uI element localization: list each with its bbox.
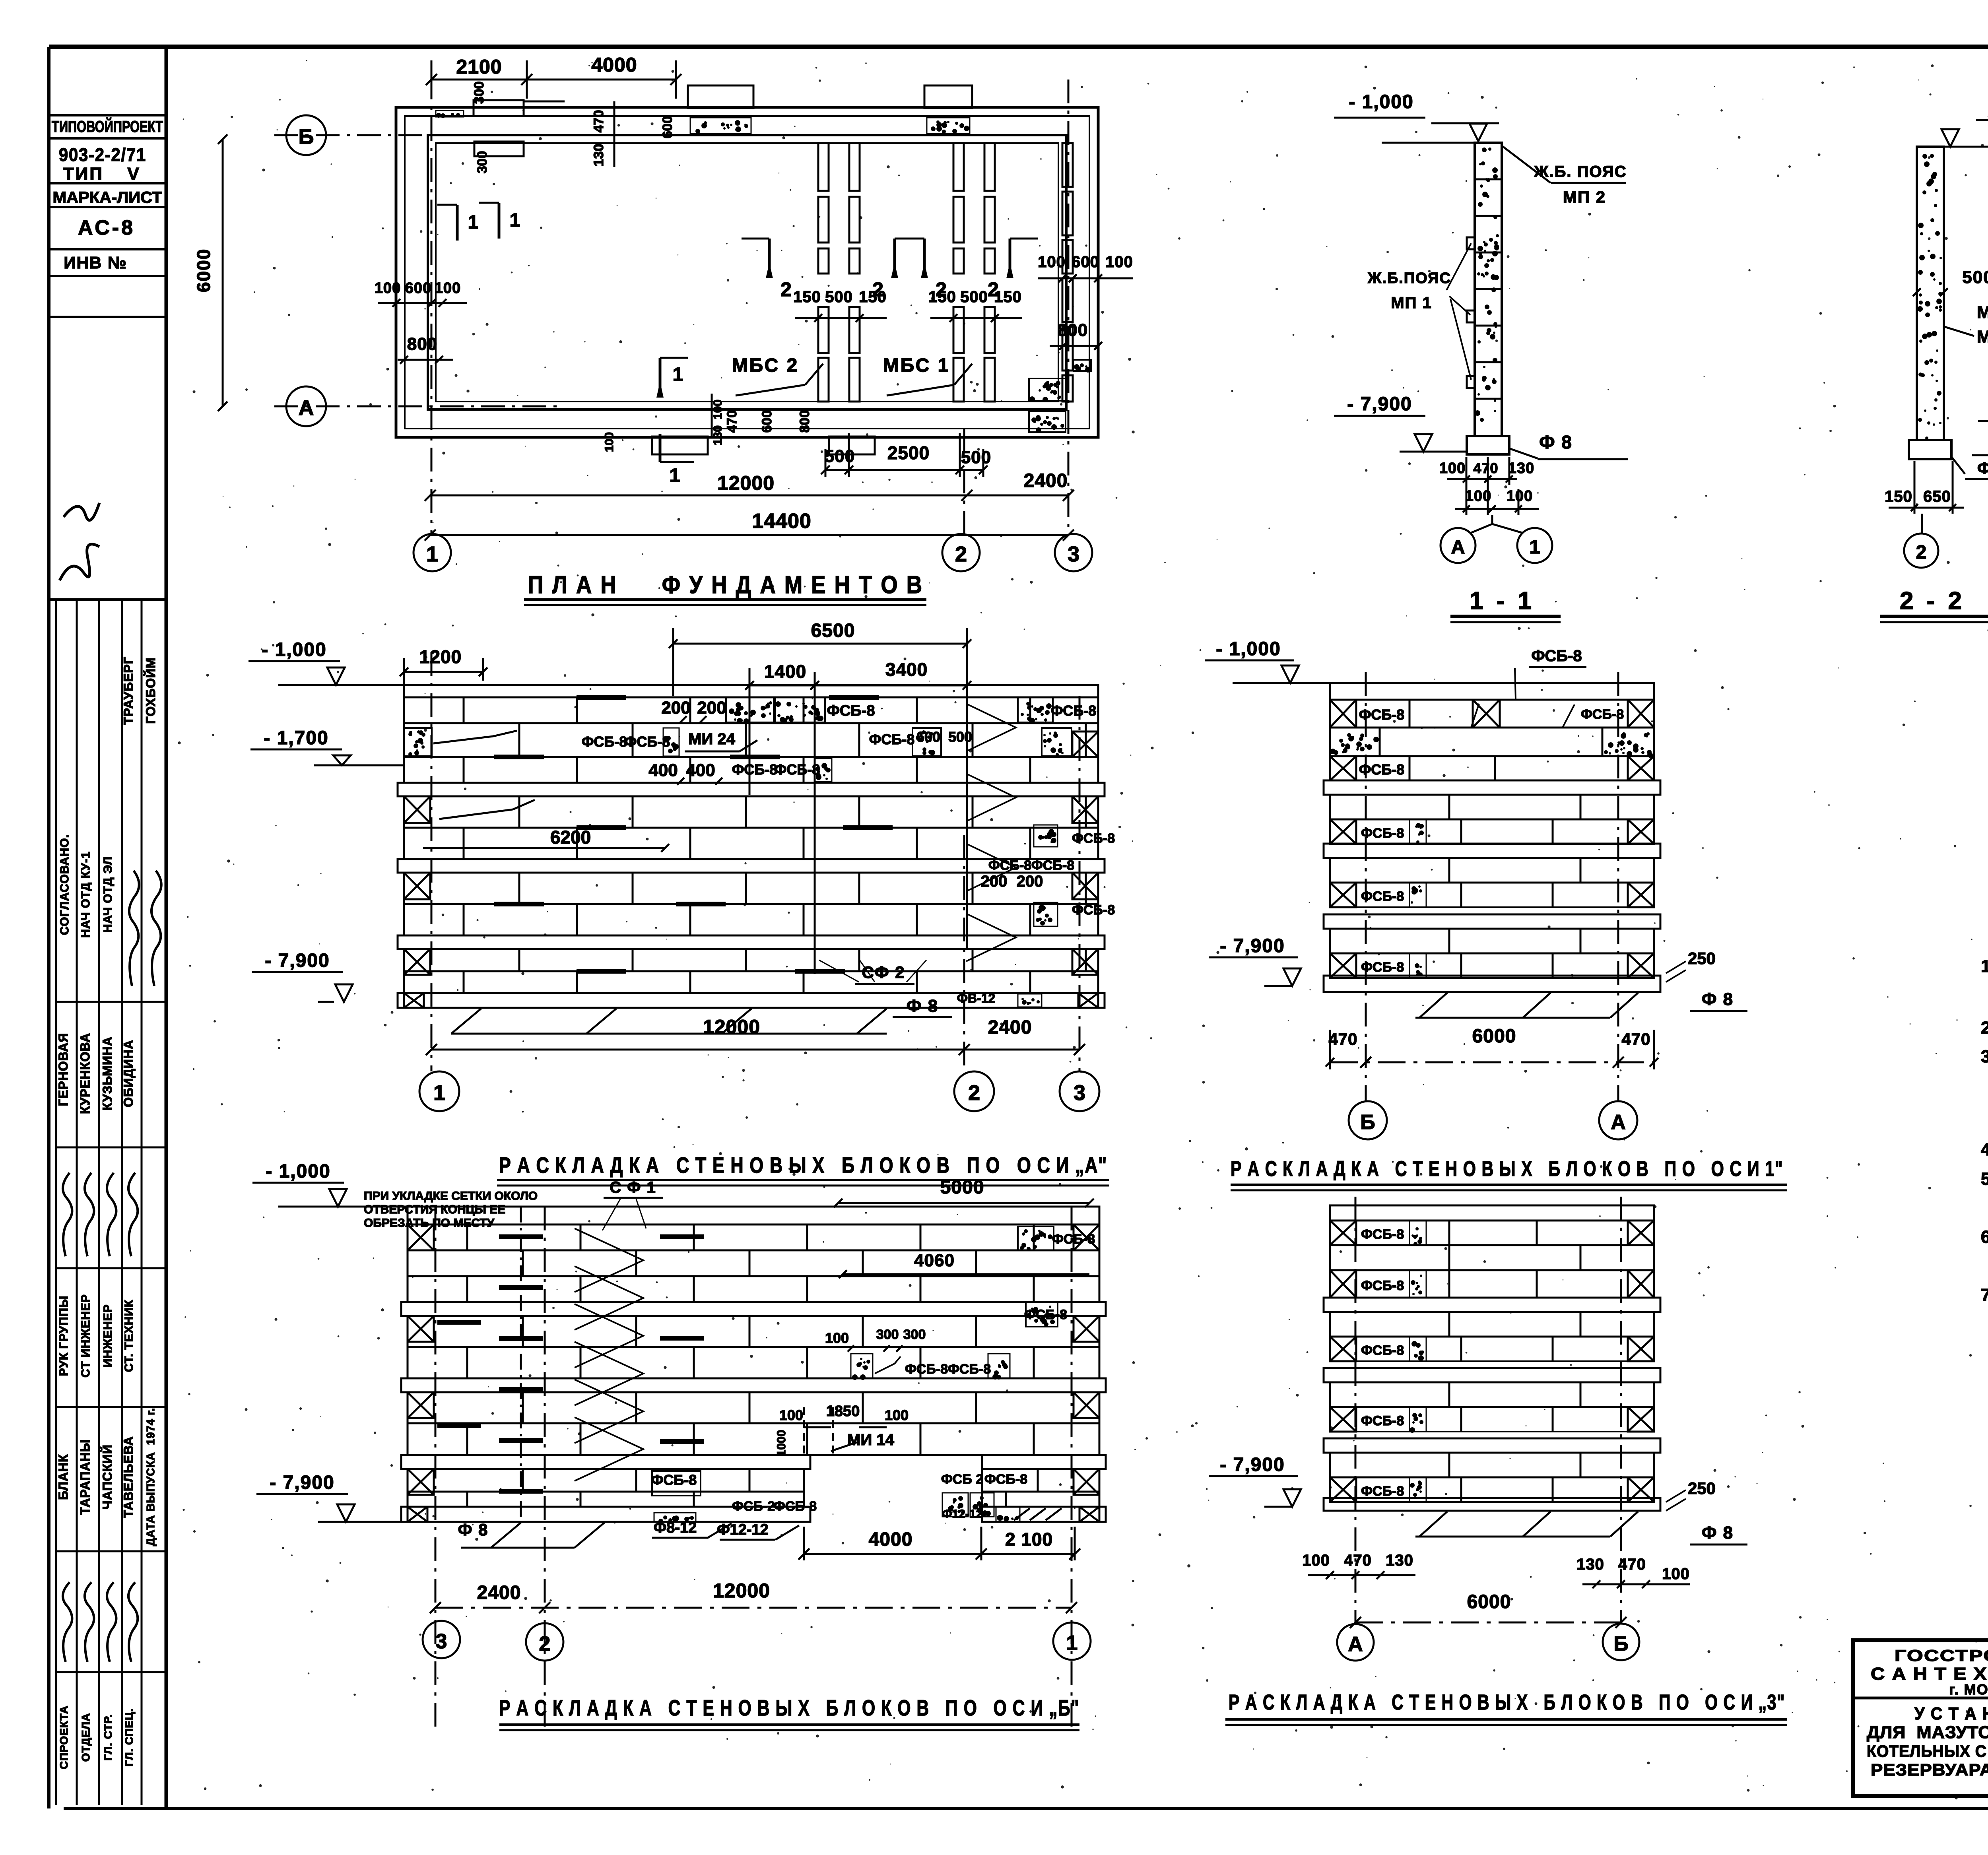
elevation axis A: corner curve row2 xyxy=(439,800,535,819)
elevation axis A: X-blocks left column xyxy=(404,796,430,823)
svg-text:ФСБ-8: ФСБ-8 xyxy=(984,1472,1027,1487)
svg-text:- 7,900: - 7,900 xyxy=(270,1472,334,1493)
svg-text:- 7,900: - 7,900 xyxy=(265,950,330,971)
elevation axis Б: bottom band (interrupted) xyxy=(401,1507,810,1522)
elevation axis 3: Ф8 leaders xyxy=(1419,1512,1447,1537)
elevation axis A: axis circle 1 xyxy=(419,1071,459,1111)
elevation axis A: belt 3 xyxy=(398,935,1105,949)
svg-text:ГОССТРОЙ СССР: ГОССТРОЙ СССР xyxy=(1895,1646,1988,1665)
elevation axis A: speckled blocks and labels row2 xyxy=(404,728,432,756)
elevation axis 3: top band xyxy=(1330,1205,1654,1220)
svg-text:ОБРЕЗАТЬ ПО МЕСТУ: ОБРЕЗАТЬ ПО МЕСТУ xyxy=(364,1217,495,1230)
svg-text:Ф 8: Ф 8 xyxy=(458,1520,489,1539)
elevation axis 3 band section C: belt xyxy=(1324,1438,1660,1453)
svg-text:150: 150 xyxy=(1885,488,1912,505)
svg-text:ФСБ-8: ФСБ-8 xyxy=(1361,1484,1404,1499)
svg-text:ФСБ-8: ФСБ-8 xyxy=(1361,1278,1404,1293)
elevation axis Б: footing leaders and labels xyxy=(491,1523,521,1548)
elevation axis Б: chevron joints column xyxy=(575,1228,643,1292)
plan: partition walls P2 xyxy=(953,143,964,191)
svg-text:4.: 4. xyxy=(1981,1140,1988,1159)
svg-text:6000: 6000 xyxy=(193,248,214,292)
elevation axis 3 band section B: belt xyxy=(1324,1368,1660,1382)
elevation axis 1: top thin band xyxy=(1330,683,1654,700)
elevation axis Б: pier bottom hatch xyxy=(1014,1508,1062,1520)
svg-text:ФСБ-2: ФСБ-2 xyxy=(732,1499,775,1514)
elevation axis 1 band section A: plain course xyxy=(1330,795,1654,819)
svg-text:2400: 2400 xyxy=(988,1017,1032,1038)
elevation axis A: rows section 2 xyxy=(404,796,1098,828)
svg-text:Ф 8: Ф 8 xyxy=(1702,990,1734,1009)
svg-text:ФСБ-8: ФСБ-8 xyxy=(582,733,627,750)
elevation axis 1: bottom band xyxy=(1324,976,1660,992)
svg-text:3: 3 xyxy=(1074,1081,1085,1105)
svg-text:ГЛ. СТР.: ГЛ. СТР. xyxy=(102,1714,114,1760)
svg-text:600: 600 xyxy=(759,410,775,433)
svg-text:ФСБ-8: ФСБ-8 xyxy=(869,731,915,747)
plan: axis circle Б xyxy=(286,115,326,155)
elevation axis Б: section 3 courses xyxy=(408,1392,1099,1423)
svg-text:470: 470 xyxy=(591,110,606,133)
svg-text:МИ 14: МИ 14 xyxy=(847,1431,894,1449)
svg-text:200: 200 xyxy=(1017,873,1043,890)
svg-text:150: 150 xyxy=(994,288,1022,306)
elevation axis A: axis circle 2 xyxy=(954,1071,994,1111)
svg-text:РУК ГРУППЫ: РУК ГРУППЫ xyxy=(57,1296,70,1376)
elevation axis 3: X course 2 xyxy=(1330,1270,1654,1298)
elevation axis Б: axis circle 1 xyxy=(1053,1622,1091,1660)
svg-text:Ф8-12: Ф8-12 xyxy=(1977,459,1988,477)
section 2-2: monolith column xyxy=(1917,147,1944,440)
svg-text:ФВ-12: ФВ-12 xyxy=(957,991,996,1005)
elevation axis 1 band section B: X course xyxy=(1330,883,1654,907)
svg-text:5000: 5000 xyxy=(940,1177,984,1198)
svg-text:130: 130 xyxy=(1386,1552,1413,1569)
elevation axis Б: axis circle 2 xyxy=(526,1623,563,1661)
svg-text:1200: 1200 xyxy=(419,646,462,667)
svg-text:ИНВ №: ИНВ № xyxy=(64,253,127,272)
svg-text:Ф 8: Ф 8 xyxy=(907,996,938,1016)
elevation axis Б: belt 1 xyxy=(401,1302,1106,1316)
svg-text:100: 100 xyxy=(779,1407,803,1423)
svg-text:Б: Б xyxy=(1613,1632,1628,1655)
svg-text:2 100: 2 100 xyxy=(1005,1529,1053,1550)
elevation axis A: speckled blocks and labels row1 xyxy=(726,697,774,722)
elevation axis 3 band section A: plain course xyxy=(1330,1312,1654,1337)
svg-text:С Ф 1: С Ф 1 xyxy=(610,1179,656,1196)
svg-text:500: 500 xyxy=(960,288,988,306)
svg-text:Ф12-12: Ф12-12 xyxy=(942,1508,982,1521)
svg-text:200: 200 xyxy=(697,698,726,718)
svg-text:600: 600 xyxy=(405,280,431,297)
section 1-1: block column xyxy=(1475,143,1502,436)
svg-text:470: 470 xyxy=(1344,1552,1372,1569)
svg-text:ИНЖЕНЕР: ИНЖЕНЕР xyxy=(101,1304,115,1367)
svg-text:- 1,000: - 1,000 xyxy=(1216,638,1281,660)
svg-text:2: 2 xyxy=(1916,542,1927,563)
svg-text:ФСБ-8: ФСБ-8 xyxy=(1072,831,1115,846)
elevation axis 3 band section B: plain course xyxy=(1330,1382,1654,1407)
svg-text:ФСБ-8: ФСБ-8 xyxy=(1024,1307,1067,1322)
svg-text:Р А С К Л А Д К А С Т Е Н О: Р А С К Л А Д К А С Т Е Н О В Ы Х Б Л О … xyxy=(499,1695,1079,1720)
plan: section mark 1 top xyxy=(456,205,459,241)
elevation axis Б: X-blocks left column xyxy=(408,1224,434,1250)
svg-text:Р А С К Л А Д К А С Т Е Н О: Р А С К Л А Д К А С Т Е Н О В Ы Х Б Л О … xyxy=(1229,1690,1785,1714)
svg-text:470: 470 xyxy=(1618,1556,1646,1573)
svg-text:300: 300 xyxy=(903,1327,926,1342)
svg-text:100: 100 xyxy=(1662,1565,1690,1583)
svg-text:ФСБ-8: ФСБ-8 xyxy=(1361,1413,1404,1428)
svg-text:А: А xyxy=(1348,1633,1363,1656)
elevation axis 1: course row 1 with X blocks xyxy=(1330,700,1654,728)
plan: hatched corner patches right xyxy=(1029,378,1066,401)
svg-text:РЕЗЕРВУАРАМИ 2х1000м: РЕЗЕРВУАРАМИ 2х1000м xyxy=(1871,1760,1988,1779)
elevation axis Б: top section courses xyxy=(408,1224,1099,1250)
elevation axis A: axis circle 3 xyxy=(1060,1071,1099,1111)
svg-text:150: 150 xyxy=(793,288,821,306)
svg-text:ТАВЕЛЬЕВА: ТАВЕЛЬЕВА xyxy=(121,1436,136,1518)
svg-text:1: 1 xyxy=(510,210,520,231)
svg-text:- 1,000: - 1,000 xyxy=(262,639,326,660)
svg-text:903-2-2/71: 903-2-2/71 xyxy=(59,144,146,165)
svg-text:3: 3 xyxy=(436,1630,447,1653)
plan: partition walls P1 xyxy=(818,143,829,191)
svg-text:МБС 1: МБС 1 xyxy=(1977,303,1988,322)
section 1-1: left ledge tabs xyxy=(1467,237,1475,249)
elevation axis A: rows section 4 xyxy=(404,949,1098,971)
rotated signatures squiggles 2 xyxy=(63,1582,72,1662)
svg-text:4060: 4060 xyxy=(914,1251,955,1270)
svg-text:14400: 14400 xyxy=(752,510,812,533)
svg-text:2500: 2500 xyxy=(887,442,930,463)
elevation axis 3 band section C: plain course xyxy=(1330,1453,1654,1477)
left stamp column cells xyxy=(49,114,166,116)
elevation axis 3 band section C: X course xyxy=(1330,1477,1654,1502)
title block frame xyxy=(1853,1640,1988,1796)
svg-text:1850: 1850 xyxy=(826,1403,860,1420)
elevation axis 3: plain course xyxy=(1330,1245,1654,1270)
svg-text:100: 100 xyxy=(1105,253,1133,271)
svg-text:2400: 2400 xyxy=(1024,470,1068,491)
elevation axis 1 band section A: X course xyxy=(1330,819,1654,844)
sheet border frame xyxy=(49,45,1988,49)
svg-text:130: 130 xyxy=(1508,460,1534,477)
svg-text:А: А xyxy=(299,396,314,420)
svg-text:500: 500 xyxy=(948,729,972,745)
foundation plan: inner wall faces xyxy=(428,135,1066,409)
svg-text:Р А С К Л А Д К А С Т Е Н О: Р А С К Л А Д К А С Т Е Н О В Ы Х Б Л О … xyxy=(1231,1157,1783,1181)
elevation axis 1 band section B: plain course xyxy=(1330,858,1654,883)
svg-text:300: 300 xyxy=(475,151,490,174)
svg-text:4000: 4000 xyxy=(591,54,637,76)
svg-text:100: 100 xyxy=(1439,460,1466,477)
svg-text:А: А xyxy=(1611,1111,1626,1134)
svg-text:ДЛЯ МАЗУТОСНАБЖЕНИЯ: ДЛЯ МАЗУТОСНАБЖЕНИЯ xyxy=(1867,1723,1988,1742)
svg-text:100: 100 xyxy=(1507,488,1533,504)
rotated signatures squiggles xyxy=(63,1173,72,1256)
svg-text:Б: Б xyxy=(299,125,314,149)
svg-text:600: 600 xyxy=(916,729,940,745)
svg-text:СТ ИНЖЕНЕР: СТ ИНЖЕНЕР xyxy=(79,1294,92,1378)
left column signature scribbles xyxy=(60,544,99,580)
svg-text:- 1,000: - 1,000 xyxy=(1349,91,1413,113)
elevation axis 1 band section C: plain course xyxy=(1330,929,1654,953)
svg-text:100: 100 xyxy=(1302,1552,1330,1569)
svg-text:ОТВЕРСТИЯ КОНЦЫ ЕЕ: ОТВЕРСТИЯ КОНЦЫ ЕЕ xyxy=(364,1203,505,1216)
svg-text:ОТДЕЛА: ОТДЕЛА xyxy=(80,1713,92,1762)
svg-text:1: 1 xyxy=(1066,1632,1078,1655)
svg-text:ФСБ-8: ФСБ-8 xyxy=(1531,647,1582,665)
svg-text:2100: 2100 xyxy=(456,56,502,78)
svg-text:500: 500 xyxy=(825,288,853,306)
svg-text:- 7,900: - 7,900 xyxy=(1347,394,1412,415)
plan: section marks 2 xyxy=(768,239,771,278)
elevation axis A: axis dash lines xyxy=(431,652,433,1071)
section 2-2: footing block xyxy=(1909,440,1951,459)
svg-text:ТИПОВОЙПРОЕКТ: ТИПОВОЙПРОЕКТ xyxy=(52,117,163,136)
elevation axis 3: axis circle А xyxy=(1337,1624,1374,1661)
svg-text:Ф 8: Ф 8 xyxy=(1702,1523,1734,1543)
svg-text:КОТЕЛЬНЫХ С ПОДЗЕМНЫМИ: КОТЕЛЬНЫХ С ПОДЗЕМНЫМИ xyxy=(1867,1742,1988,1760)
svg-text:150: 150 xyxy=(928,288,956,306)
elevation axis 1: axis circle А xyxy=(1599,1101,1637,1139)
svg-text:500: 500 xyxy=(961,448,991,467)
svg-text:ДАТА ВЫПУСКА 1974 г.: ДАТА ВЫПУСКА 1974 г. xyxy=(144,1408,157,1546)
elevation axis 1 band section C: X course xyxy=(1330,953,1654,978)
svg-text:ФСБ-8: ФСБ-8 xyxy=(1361,889,1404,904)
svg-text:1: 1 xyxy=(673,364,683,385)
section 1-1: axis circle А xyxy=(1441,528,1475,563)
svg-text:100: 100 xyxy=(825,1330,849,1346)
elevation axis 3: bottom band xyxy=(1324,1498,1660,1511)
elevation axis 3: axis circle Б xyxy=(1603,1624,1639,1660)
svg-text:НАЧ ОТД КУ-1: НАЧ ОТД КУ-1 xyxy=(79,851,92,937)
svg-text:470: 470 xyxy=(1473,460,1498,476)
svg-text:6.: 6. xyxy=(1981,1227,1988,1247)
svg-text:400: 400 xyxy=(648,761,678,780)
elevation axis 1: Ф8 leader bottom xyxy=(1419,993,1447,1018)
svg-text:300: 300 xyxy=(472,81,487,104)
svg-text:1: 1 xyxy=(670,465,680,486)
svg-text:12000: 12000 xyxy=(713,1579,770,1602)
svg-text:470: 470 xyxy=(1328,1030,1357,1048)
svg-text:5.: 5. xyxy=(1981,1169,1988,1189)
svg-text:1.: 1. xyxy=(1981,957,1988,976)
svg-text:1: 1 xyxy=(433,1081,445,1105)
svg-text:ЧАПСКИЙ: ЧАПСКИЙ xyxy=(100,1444,115,1510)
plan: axis dash-dot lines xyxy=(274,134,429,136)
svg-text:ФСБ-8: ФСБ-8 xyxy=(905,1362,948,1377)
elevation axis 3 band section A: X course xyxy=(1330,1337,1654,1361)
svg-text:КУРЕНКОВА: КУРЕНКОВА xyxy=(78,1033,92,1114)
plan: axis circle А xyxy=(286,386,326,426)
svg-text:130: 130 xyxy=(591,144,606,167)
section 2-2: axis circle 2 xyxy=(1904,534,1938,568)
svg-text:12000: 12000 xyxy=(717,472,775,494)
svg-text:500: 500 xyxy=(1962,268,1988,287)
svg-text:ГОХБОЙМ: ГОХБОЙМ xyxy=(144,657,158,724)
svg-text:ФСБ-8: ФСБ-8 xyxy=(1051,702,1097,719)
elevation axis 1 band section A: belt xyxy=(1324,780,1660,795)
svg-text:- 1,700: - 1,700 xyxy=(264,728,328,749)
svg-text:Ж.Б.ПОЯС: Ж.Б.ПОЯС xyxy=(1367,270,1451,287)
plan: top dimension 2100 xyxy=(431,79,676,81)
elevation axis A: chevron joints column xyxy=(966,704,1016,751)
elevation axis Б: black joint marks xyxy=(499,1234,543,1239)
elevation axis 3: axis dash lines xyxy=(1355,1197,1357,1623)
elevation axis 1: axis dash lines xyxy=(1365,672,1367,1101)
elevation axis A: X-blocks right column xyxy=(1072,732,1098,757)
left column signature table xyxy=(76,600,78,1805)
svg-text:ФСБ-8: ФСБ-8 xyxy=(1072,902,1115,918)
svg-text:1400: 1400 xyxy=(764,661,806,682)
svg-text:12000: 12000 xyxy=(703,1016,760,1038)
svg-text:1000: 1000 xyxy=(775,1430,788,1457)
svg-text:ТАРАПАНЫ: ТАРАПАНЫ xyxy=(78,1439,92,1515)
svg-text:ФСБ-8: ФСБ-8 xyxy=(1361,1343,1404,1358)
svg-text:6000: 6000 xyxy=(1467,1591,1511,1612)
svg-text:7.: 7. xyxy=(1981,1285,1988,1305)
elevation axis 3 band section A: belt xyxy=(1324,1298,1660,1312)
svg-text:250: 250 xyxy=(1688,1479,1716,1498)
elevation axis A: belt 2 xyxy=(398,859,1105,873)
svg-text:КУЗЬМИНА: КУЗЬМИНА xyxy=(100,1036,115,1110)
svg-text:V: V xyxy=(127,164,139,184)
svg-text:А: А xyxy=(1451,537,1465,558)
svg-text:ФСБ-8: ФСБ-8 xyxy=(732,761,778,778)
svg-text:П Л А Н Ф У Н Д А М Е Н Т: П Л А Н Ф У Н Д А М Е Н Т О В xyxy=(528,571,924,599)
svg-text:6500: 6500 xyxy=(811,620,855,641)
svg-text:250: 250 xyxy=(1688,949,1716,968)
svg-text:МАРКА-ЛИСТ: МАРКА-ЛИСТ xyxy=(53,189,162,206)
svg-text:- 1,000: - 1,000 xyxy=(266,1161,330,1182)
section 1-1: footing block Ф8 xyxy=(1467,436,1509,454)
elevation axis 1: axis circle Б xyxy=(1349,1101,1387,1139)
svg-text:ФСБ-8: ФСБ-8 xyxy=(1361,960,1404,975)
svg-text:ФСБ-8: ФСБ-8 xyxy=(1031,858,1074,873)
plan: section mark 1 bottom xyxy=(659,434,662,462)
svg-text:ФСБ-8: ФСБ-8 xyxy=(1361,1227,1404,1242)
elevation axis 1: course row 2 speckled xyxy=(1330,728,1654,756)
svg-text:МП 1: МП 1 xyxy=(1391,294,1432,312)
svg-text:3.: 3. xyxy=(1981,1047,1988,1066)
svg-text:ФСБ-8: ФСБ-8 xyxy=(1052,1232,1095,1247)
svg-text:1 - 1: 1 - 1 xyxy=(1470,587,1535,615)
svg-text:600: 600 xyxy=(1072,253,1099,271)
svg-text:Р А С К Л А Д К А С Т Е Н О: Р А С К Л А Д К А С Т Е Н О В Ы Х Б Л О … xyxy=(499,1153,1107,1178)
elevation axis A: belt 1 xyxy=(398,783,1105,796)
elevation axis Б: section 4 courses (interrupted) xyxy=(408,1469,804,1492)
svg-text:МБС 2: МБС 2 xyxy=(1977,327,1988,347)
svg-text:100: 100 xyxy=(375,280,401,297)
svg-text:СТ. ТЕХНИК: СТ. ТЕХНИК xyxy=(122,1300,136,1372)
section 1-1: axis circle 1 xyxy=(1517,528,1552,563)
svg-text:- 7,900: - 7,900 xyxy=(1220,1454,1285,1475)
svg-text:100: 100 xyxy=(603,432,616,452)
elevation axis 3 band section B: X course xyxy=(1330,1407,1654,1432)
svg-text:ОБИДИНА: ОБИДИНА xyxy=(121,1040,136,1107)
svg-text:200: 200 xyxy=(661,698,690,718)
elevation axis Б: X-blocks right column xyxy=(1074,1224,1099,1250)
svg-text:800: 800 xyxy=(797,410,812,433)
svg-text:470: 470 xyxy=(724,410,740,433)
elevation axis Б: section 2 courses xyxy=(408,1316,1099,1347)
svg-text:2: 2 xyxy=(968,1081,980,1105)
svg-text:- 7,900: - 7,900 xyxy=(1220,935,1285,957)
svg-text:150: 150 xyxy=(859,288,887,306)
svg-text:3400: 3400 xyxy=(885,659,928,680)
svg-text:Ж.Б. ПОЯС: Ж.Б. ПОЯС xyxy=(1534,163,1627,180)
svg-text:С А Н Т Е Х П Р О Е К Т: С А Н Т Е Х П Р О Е К Т xyxy=(1871,1664,1988,1684)
svg-text:ТРАУБЕРГ: ТРАУБЕРГ xyxy=(121,656,136,725)
svg-text:ТИП: ТИП xyxy=(63,164,104,184)
svg-text:100: 100 xyxy=(1038,253,1066,271)
svg-text:1: 1 xyxy=(426,542,438,566)
elevation axis Б: belt 3 (interrupted by opening) xyxy=(401,1455,810,1469)
foundation plan: outer wall contour xyxy=(396,107,1098,437)
svg-text:2: 2 xyxy=(780,278,792,301)
plan: axis circle 1 xyxy=(414,534,451,571)
elevation axis Б: axis 2 dash lines in wall xyxy=(520,1207,522,1522)
elevation axis 3: X course 1 xyxy=(1330,1220,1654,1245)
svg-text:4000: 4000 xyxy=(869,1529,913,1550)
svg-text:Ф12-12: Ф12-12 xyxy=(717,1521,769,1538)
svg-text:2: 2 xyxy=(955,542,967,566)
plan: partition wall P3 xyxy=(1062,143,1073,187)
svg-text:470: 470 xyxy=(1621,1030,1650,1048)
svg-text:ФСБ-8: ФСБ-8 xyxy=(775,761,820,778)
elevation axis A: rows section 3 xyxy=(404,873,1098,904)
svg-text:6000: 6000 xyxy=(1472,1026,1516,1047)
elevation axis A: course rows top section xyxy=(404,697,1098,723)
elevation axis Б: top thin band xyxy=(408,1207,1099,1224)
svg-text:2 - 2: 2 - 2 xyxy=(1900,587,1965,615)
plan: section mark 1 mid xyxy=(659,358,662,398)
elevation axis A: bottom band xyxy=(398,993,1105,1008)
svg-text:ФСБ 2: ФСБ 2 xyxy=(941,1472,983,1487)
plan: axis circle 2 xyxy=(942,534,980,571)
svg-text:ФСБ-8: ФСБ-8 xyxy=(1361,826,1404,841)
svg-text:650: 650 xyxy=(1923,488,1951,505)
svg-text:200: 200 xyxy=(981,873,1008,890)
svg-text:МБС 1: МБС 1 xyxy=(883,355,950,376)
svg-text:130: 130 xyxy=(711,425,724,445)
svg-text:МП 2: МП 2 xyxy=(1563,188,1606,206)
svg-text:Ф8-12: Ф8-12 xyxy=(654,1519,697,1536)
svg-text:2400: 2400 xyxy=(477,1582,521,1603)
elevation axis Б: speckle group mid xyxy=(851,1354,873,1378)
svg-text:1: 1 xyxy=(468,212,479,233)
svg-text:У С Т А Н О В К А: У С Т А Н О В К А xyxy=(1914,1704,1988,1723)
elevation axis A: black joint bars xyxy=(577,695,626,700)
plan: top wall pilaster bumps xyxy=(474,100,524,116)
svg-text:БЛАНК: БЛАНК xyxy=(56,1454,70,1500)
svg-text:400: 400 xyxy=(686,761,715,780)
svg-text:Ф 8: Ф 8 xyxy=(1539,432,1573,452)
svg-text:ФСБ-8: ФСБ-8 xyxy=(827,702,875,719)
svg-text:130: 130 xyxy=(1576,1556,1604,1573)
plan: axis circle 3 xyxy=(1055,534,1092,571)
elevation axis A: footing leader lines xyxy=(451,1009,481,1034)
svg-text:800: 800 xyxy=(1058,320,1088,340)
elevation axis Б: axis circle 3 xyxy=(423,1621,460,1658)
согласовано signatures squiggles xyxy=(129,871,139,986)
svg-text:ГЛ. СПЕЦ.: ГЛ. СПЕЦ. xyxy=(123,1708,135,1767)
svg-text:г. МОСКВА: г. МОСКВА xyxy=(1949,1681,1988,1698)
svg-text:МИ 24: МИ 24 xyxy=(688,730,735,748)
svg-text:800: 800 xyxy=(407,334,437,354)
svg-text:100: 100 xyxy=(885,1407,909,1423)
